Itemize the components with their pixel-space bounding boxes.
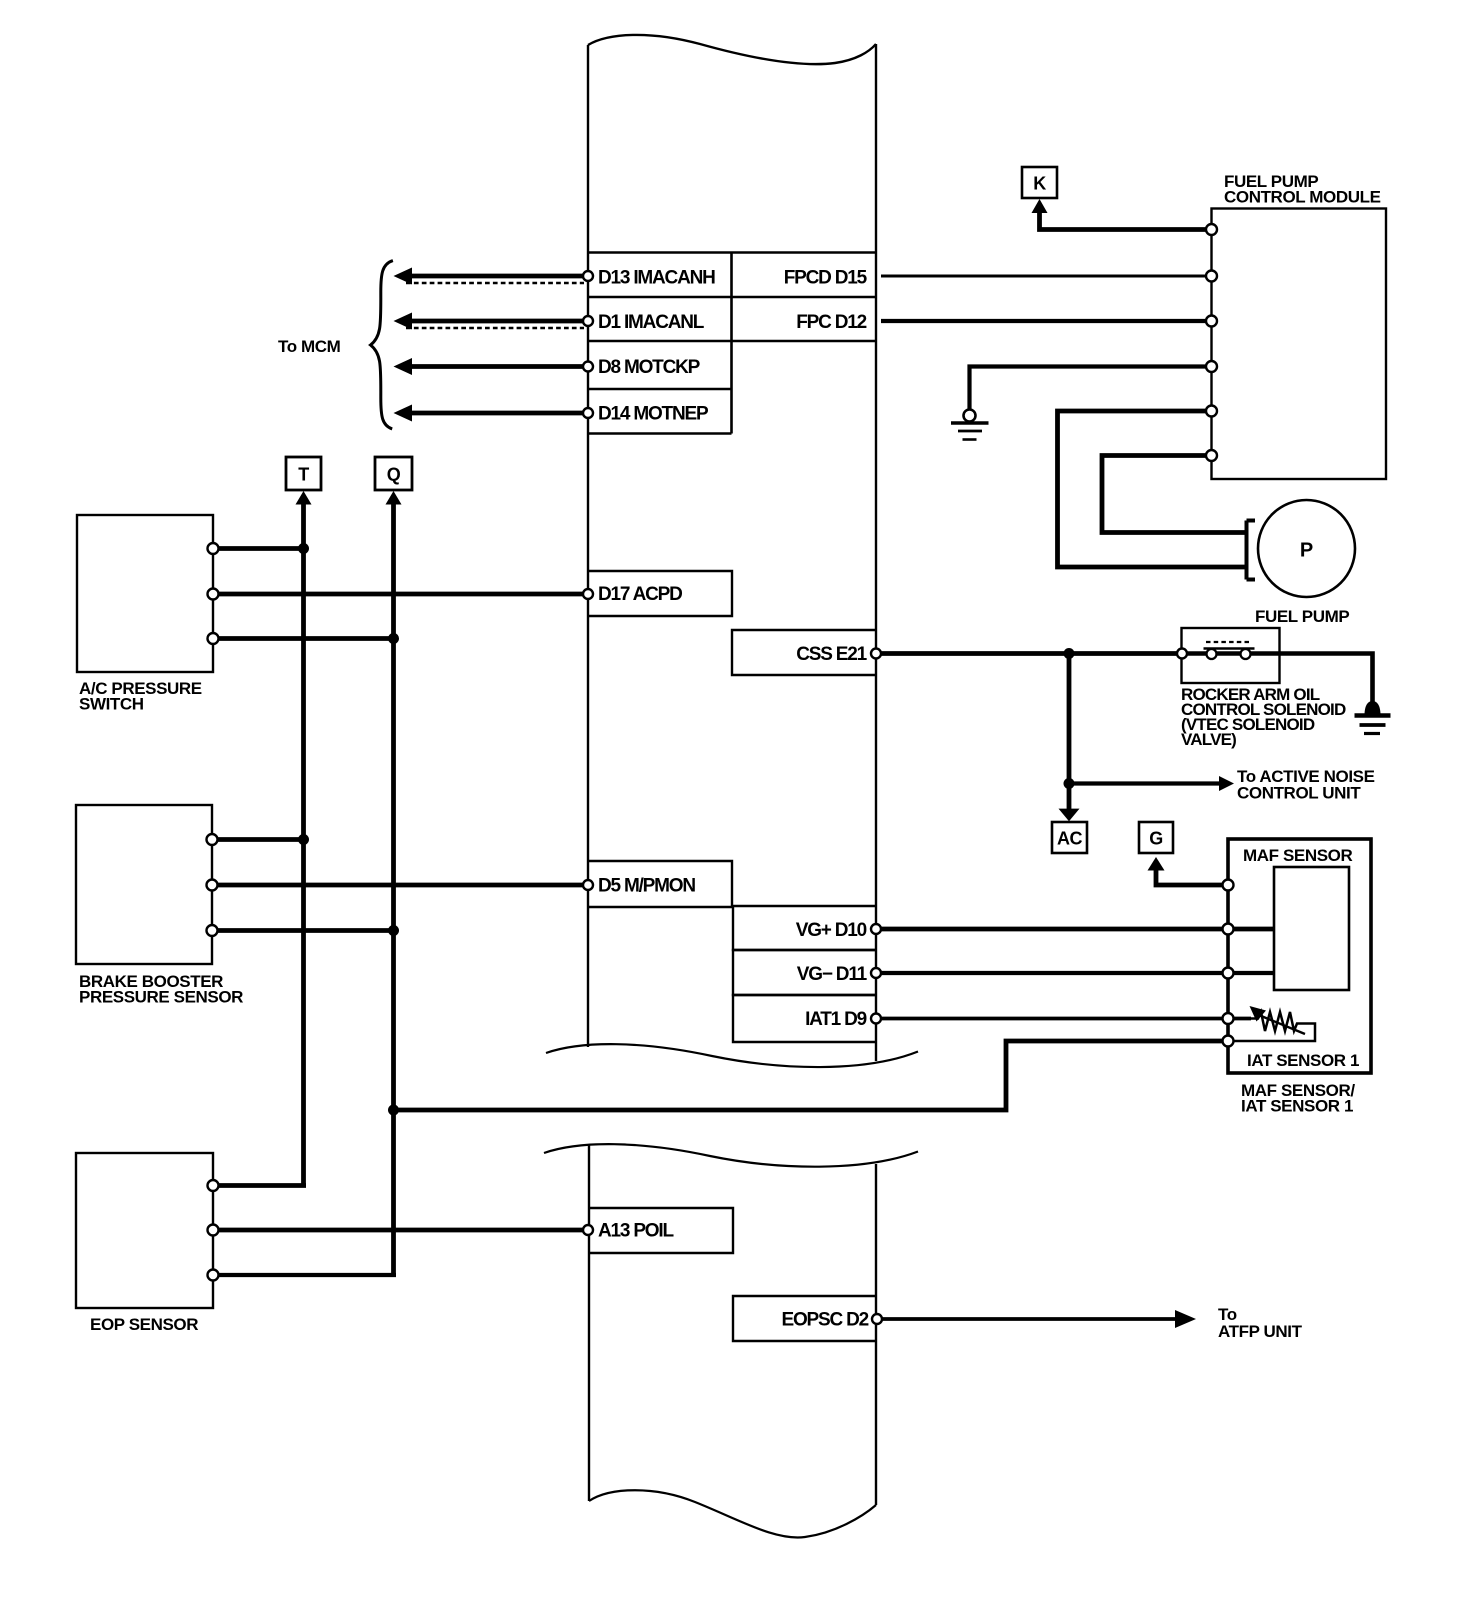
node D1 terminal xyxy=(583,316,593,326)
wire FPCD D15 to FPCM xyxy=(881,275,1208,278)
arrow into Q xyxy=(386,491,402,505)
svg-text:SWITCH: SWITCH xyxy=(79,695,144,714)
connector box D5 M/PMON xyxy=(588,861,732,907)
ground symbol (FPCM) xyxy=(951,410,989,440)
ECM/PCM band break wave 1 xyxy=(546,1044,918,1067)
wire FPCM ground xyxy=(970,367,1209,410)
wire EOP mid to A13 POIL xyxy=(213,1228,586,1233)
svg-text:VG+ D10: VG+ D10 xyxy=(796,920,867,941)
node VG+ terminal xyxy=(871,924,881,934)
node IAT1 terminal xyxy=(871,1014,881,1024)
connector box D17 ACPD xyxy=(588,571,732,616)
ECM/PCM band top torn edge xyxy=(588,35,876,64)
wire FPC D12 to FPCM xyxy=(881,319,1208,323)
connector box D8 MOTCKP xyxy=(588,388,732,391)
node D13 terminal xyxy=(583,271,593,281)
node EOP terminal 1 xyxy=(208,1180,219,1191)
junction CSS branch xyxy=(1064,648,1075,659)
node solenoid left terminal xyxy=(1177,649,1187,659)
wire to active noise control unit xyxy=(1069,781,1221,785)
wire A/C mid to D17 ACPD xyxy=(213,592,586,597)
wire VG- D11 to MAF xyxy=(881,971,1274,975)
junction Q / brake xyxy=(388,925,399,936)
node FPCM terminal FPCD xyxy=(1206,271,1217,282)
junction T / A/C xyxy=(298,543,309,554)
svg-text:VG− D11: VG− D11 xyxy=(797,964,868,985)
IAT sensor 1 thermistor xyxy=(1228,1006,1315,1041)
wire brake top to T xyxy=(212,837,304,842)
brace for To MCM xyxy=(371,261,393,429)
node D5 terminal xyxy=(583,880,593,890)
connector box A13 POIL xyxy=(588,1208,733,1253)
wire arrow to MCM from D1 xyxy=(410,319,586,324)
svg-text:FPC D12: FPC D12 xyxy=(796,312,866,333)
junction T / brake xyxy=(298,834,309,845)
junction Q / A/C xyxy=(388,633,399,644)
ECM/PCM band right edge upper xyxy=(875,44,877,1061)
component box FUEL PUMP CONTROL MODULE xyxy=(1212,209,1387,480)
node brake terminal 2 xyxy=(207,880,218,891)
svg-text:CONTROL MODULE: CONTROL MODULE xyxy=(1224,188,1381,207)
wire IAT ground to Q line xyxy=(394,1041,1224,1110)
svg-text:K: K xyxy=(1033,174,1046,194)
wire dashed CAN line D1 xyxy=(406,327,584,330)
wire Q vertical xyxy=(391,500,396,1275)
node brake terminal 3 xyxy=(207,925,218,936)
node FPCM terminal K xyxy=(1206,224,1217,235)
node brake terminal 1 xyxy=(207,834,218,845)
connector box IAT1 D9 xyxy=(733,995,876,1042)
node FPCM terminal GND xyxy=(1206,361,1217,372)
terminal box K xyxy=(1022,167,1057,198)
ECM/PCM band right edge lower xyxy=(875,1164,877,1505)
node A/C terminal 2 xyxy=(208,589,219,600)
wire EOPSC to ATFP arrow xyxy=(882,1317,1178,1321)
arrow into T xyxy=(296,491,312,505)
wire arrow to MCM from D8 xyxy=(410,364,586,369)
svg-text:PRESSURE SENSOR: PRESSURE SENSOR xyxy=(79,988,243,1007)
wire G to MAF xyxy=(1156,863,1225,885)
wire CSS branch down to AC xyxy=(1067,654,1072,810)
svg-text:IAT SENSOR 1: IAT SENSOR 1 xyxy=(1247,1051,1359,1070)
node D14 terminal xyxy=(583,408,593,418)
svg-text:CSS E21: CSS E21 xyxy=(796,644,867,665)
arrow into K xyxy=(1032,199,1048,213)
svg-text:CONTROL UNIT: CONTROL UNIT xyxy=(1237,784,1361,803)
wire T vertical xyxy=(301,500,306,1187)
wire dashed CAN line D13 xyxy=(406,282,584,285)
component box EOP SENSOR xyxy=(76,1153,213,1308)
node FPCM terminal FPC xyxy=(1206,316,1217,327)
node EOPSC terminal xyxy=(872,1314,882,1324)
terminal box G xyxy=(1139,822,1173,853)
ECM/PCM band break wave 2 xyxy=(544,1144,918,1167)
svg-text:D5 M/PMON: D5 M/PMON xyxy=(598,876,695,897)
wire arrow to MCM from D14 xyxy=(410,411,586,416)
component box MAF SENSOR xyxy=(1228,839,1371,1073)
arrow into G xyxy=(1148,857,1165,871)
wire A/C bottom to Q xyxy=(213,636,394,641)
svg-text:D14 MOTNEP: D14 MOTNEP xyxy=(598,404,709,425)
svg-text:To MCM: To MCM xyxy=(278,337,341,356)
node EOP terminal 2 xyxy=(208,1225,219,1236)
svg-text:D13 IMACANH: D13 IMACANH xyxy=(598,268,715,289)
node CSS terminal xyxy=(871,649,881,659)
MAF inner body xyxy=(1274,867,1349,990)
junction Q / IAT ground xyxy=(388,1105,399,1116)
wire VG+ D10 to MAF xyxy=(881,927,1274,932)
svg-text:IAT1 D9: IAT1 D9 xyxy=(805,1009,867,1030)
wire FPCM to fuel pump - xyxy=(1102,456,1247,533)
junction active noise branch xyxy=(1064,778,1075,789)
component box BRAKE BOOSTER PRESSURE SENSOR xyxy=(76,805,212,964)
svg-text:AC: AC xyxy=(1057,829,1082,849)
terminal box T xyxy=(286,457,321,490)
wire A/C top to T xyxy=(213,546,304,551)
connector box D14 MOTNEP xyxy=(588,432,732,435)
node MAF terminal 2 xyxy=(1223,924,1234,935)
node VG- terminal xyxy=(871,968,881,978)
terminal box Q xyxy=(375,457,412,490)
node FPCM terminal pump- xyxy=(1206,450,1217,461)
fuel pump motor P xyxy=(1247,500,1356,597)
wire arrow to MCM from D13 xyxy=(410,274,586,279)
node A/C terminal 3 xyxy=(208,633,219,644)
svg-text:EOPSC D2: EOPSC D2 xyxy=(782,1310,869,1331)
svg-text:FUEL PUMP: FUEL PUMP xyxy=(1255,607,1349,626)
component box A/C PRESSURE SWITCH xyxy=(77,515,213,672)
node EOP terminal 3 xyxy=(208,1270,219,1281)
svg-text:D1 IMACANL: D1 IMACANL xyxy=(598,312,705,333)
wire FPCM to fuel pump + xyxy=(1058,411,1247,567)
node MAF terminal 1 xyxy=(1223,880,1234,891)
wire IAT1 D9 to MAF xyxy=(881,1017,1251,1021)
node D8 terminal xyxy=(583,362,593,372)
svg-text:Q: Q xyxy=(387,465,401,485)
node FPCM terminal pump+ xyxy=(1206,406,1217,417)
svg-text:A13 POIL: A13 POIL xyxy=(598,1221,674,1242)
connector box D13 IMACANH xyxy=(588,253,876,434)
connector box VG- D11 xyxy=(733,950,876,995)
svg-text:VALVE): VALVE) xyxy=(1181,730,1236,749)
ECM/PCM band left edge upper xyxy=(587,45,589,1047)
wire brake mid to D5 M/PMON xyxy=(212,883,586,888)
connector box CSS E21 xyxy=(732,630,875,675)
svg-text:D17 ACPD: D17 ACPD xyxy=(598,584,682,605)
wire brake bottom to Q xyxy=(212,928,394,933)
svg-text:FPCD D15: FPCD D15 xyxy=(784,268,868,289)
svg-text:MAF SENSOR: MAF SENSOR xyxy=(1243,846,1352,865)
svg-text:ATFP UNIT: ATFP UNIT xyxy=(1218,1322,1303,1341)
wire EOP bottom to Q xyxy=(213,1273,396,1277)
node A13 terminal xyxy=(583,1225,593,1235)
ground symbol (solenoid) xyxy=(1355,701,1391,734)
ECM/PCM band left edge lower xyxy=(588,1145,590,1501)
connector box EOPSC D2 xyxy=(733,1296,877,1341)
svg-text:T: T xyxy=(298,465,309,485)
node MAF terminal 3 xyxy=(1223,968,1234,979)
svg-text:G: G xyxy=(1149,829,1163,849)
wire CSS E21 to solenoid xyxy=(881,651,1182,656)
node A/C terminal 1 xyxy=(208,543,219,554)
svg-text:IAT SENSOR 1: IAT SENSOR 1 xyxy=(1241,1097,1353,1116)
node D17 terminal xyxy=(583,589,593,599)
wire K to FPCM xyxy=(1040,208,1209,230)
arrow into AC xyxy=(1059,809,1080,822)
connector box VG+ D10 xyxy=(733,906,876,950)
svg-text:EOP SENSOR: EOP SENSOR xyxy=(90,1315,198,1334)
connector box D1 IMACANL xyxy=(588,340,876,343)
svg-text:D8 MOTCKP: D8 MOTCKP xyxy=(598,357,701,378)
node MAF terminal 5 xyxy=(1223,1036,1234,1047)
node MAF terminal 4 xyxy=(1223,1013,1234,1024)
ECM/PCM band bottom torn edge xyxy=(589,1490,876,1537)
wire EOP top to T xyxy=(213,1183,306,1188)
terminal box AC xyxy=(1052,822,1087,853)
component rocker arm oil control solenoid xyxy=(1182,628,1373,704)
svg-text:P: P xyxy=(1300,540,1313,562)
